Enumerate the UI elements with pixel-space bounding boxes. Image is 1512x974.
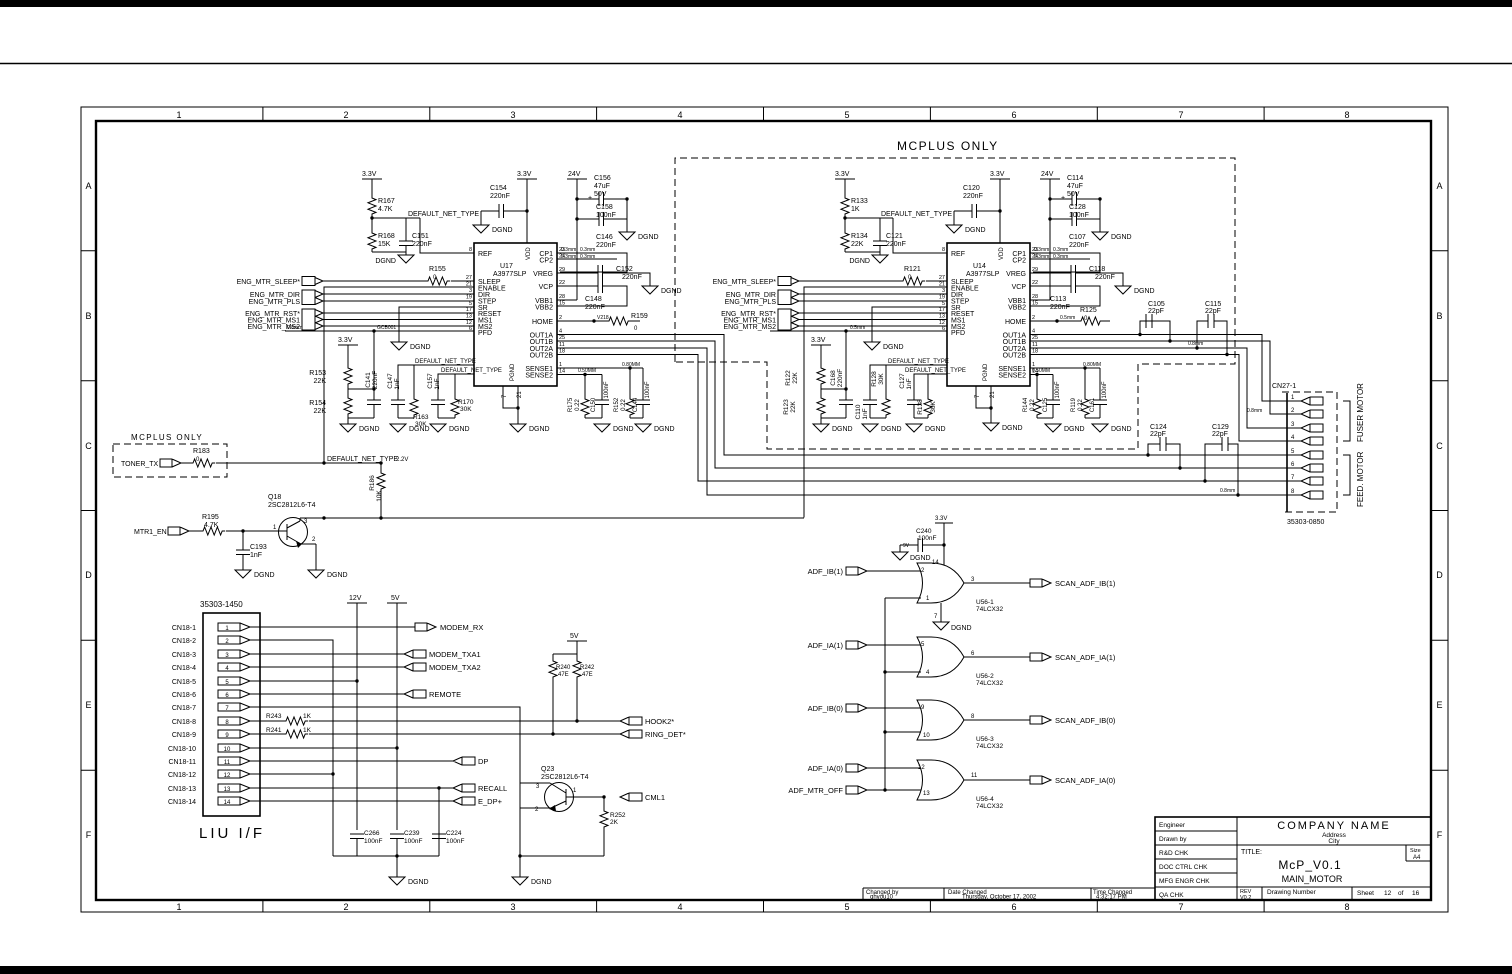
svg-text:1K: 1K bbox=[303, 727, 312, 734]
resistor R119 bbox=[1071, 366, 1089, 418]
svg-text:100nF: 100nF bbox=[446, 838, 464, 845]
input port MTR1_EN bbox=[134, 527, 189, 536]
output port MODEM_RX bbox=[415, 623, 483, 632]
svg-text:MCPLUS ONLY: MCPLUS ONLY bbox=[131, 433, 203, 442]
svg-text:30K: 30K bbox=[460, 406, 472, 413]
output port SCAN_ADF_IA(0) bbox=[1030, 776, 1116, 785]
input port DP bbox=[453, 757, 488, 766]
capacitor C124 bbox=[1146, 424, 1181, 470]
input port ENG_MTR_SLEEP* bbox=[237, 277, 323, 287]
resistor R183 bbox=[190, 448, 215, 467]
wire U56-2 output SCAN_ADF_IA(1) bbox=[964, 656, 1030, 658]
svg-text:MODEM_TXA1: MODEM_TXA1 bbox=[429, 650, 481, 659]
svg-text:22: 22 bbox=[1032, 280, 1038, 286]
input port ADF_IA(0) bbox=[808, 764, 867, 773]
input port HOOK2* bbox=[620, 717, 674, 726]
connector CN18 pin 7 bbox=[172, 703, 250, 712]
wire pin10 5V bbox=[250, 746, 399, 749]
capacitor C151 bbox=[399, 233, 432, 248]
row letters left bbox=[85, 181, 92, 840]
svg-text:McP_V0.1: McP_V0.1 bbox=[1278, 858, 1341, 872]
output port SCAN_ADF_IB(0) bbox=[1030, 716, 1116, 725]
wire ADF_IA(1) bbox=[867, 644, 921, 646]
node DEFAULT_NET_TYPE (U17 REF) bbox=[370, 211, 479, 220]
svg-text:24V: 24V bbox=[1041, 171, 1054, 178]
svg-text:47E: 47E bbox=[582, 672, 593, 678]
wire REF net bbox=[372, 217, 474, 253]
svg-text:0.50MM: 0.50MM bbox=[578, 368, 596, 374]
wire OUT2A U14 bbox=[1030, 348, 1287, 428]
svg-text:U14: U14 bbox=[973, 263, 986, 270]
svg-text:50V: 50V bbox=[594, 191, 607, 198]
capacitor C168 bbox=[830, 369, 853, 405]
svg-text:9V: 9V bbox=[903, 543, 910, 549]
svg-text:City: City bbox=[1328, 838, 1340, 845]
svg-text:3.3V: 3.3V bbox=[990, 171, 1005, 178]
svg-text:ADF_IA(1): ADF_IA(1) bbox=[808, 641, 844, 650]
svg-text:220nF: 220nF bbox=[1095, 274, 1115, 281]
svg-text:Thursday, October 17, 2002: Thursday, October 17, 2002 bbox=[962, 895, 1037, 901]
svg-text:4.7K: 4.7K bbox=[204, 522, 219, 529]
ground DGND (C144) bbox=[635, 424, 675, 433]
resistor R144 bbox=[1023, 373, 1041, 418]
node V219 bbox=[1055, 315, 1075, 323]
svg-text:1nF: 1nF bbox=[250, 552, 262, 559]
svg-text:11: 11 bbox=[971, 773, 978, 779]
U14 bottom ground pins bbox=[975, 363, 996, 423]
ground DGND (C157) bbox=[430, 424, 470, 433]
svg-text:C154: C154 bbox=[490, 185, 507, 192]
svg-text:19: 19 bbox=[939, 295, 945, 301]
wire VREG U14 bbox=[1030, 273, 1123, 286]
svg-text:11: 11 bbox=[1032, 342, 1038, 348]
svg-text:R241: R241 bbox=[266, 727, 282, 734]
input port CML1 bbox=[620, 793, 665, 802]
U14 left pin names bbox=[951, 251, 979, 337]
svg-text:U56-4: U56-4 bbox=[976, 796, 994, 803]
input port ENG_MTR_DIR (U14) bbox=[726, 290, 799, 305]
svg-text:14: 14 bbox=[224, 800, 231, 806]
svg-text:0.8mm: 0.8mm bbox=[1188, 341, 1203, 347]
svg-text:22K: 22K bbox=[792, 372, 799, 384]
wire pin5 12V bbox=[250, 679, 359, 682]
svg-text:5V: 5V bbox=[570, 633, 579, 640]
svg-text:CN18-8: CN18-8 bbox=[172, 719, 196, 726]
svg-text:C158: C158 bbox=[596, 204, 613, 211]
capacitor C156 electrolytic bbox=[577, 175, 627, 206]
svg-text:C107: C107 bbox=[1069, 234, 1086, 241]
input port ADF_IB(0) bbox=[808, 704, 867, 713]
connector CN18 pin 11 bbox=[169, 757, 251, 766]
svg-text:21: 21 bbox=[990, 391, 996, 398]
input port E_DP+ bbox=[453, 797, 503, 806]
svg-text:17: 17 bbox=[939, 307, 945, 313]
svg-text:22K: 22K bbox=[851, 241, 864, 248]
svg-text:ADF_IB(0): ADF_IB(0) bbox=[808, 704, 844, 713]
svg-text:C127: C127 bbox=[899, 373, 906, 389]
svg-text:22pF: 22pF bbox=[1205, 308, 1221, 315]
svg-text:1nF: 1nF bbox=[434, 378, 441, 389]
svg-text:C: C bbox=[85, 441, 92, 451]
svg-text:22: 22 bbox=[559, 280, 565, 286]
connector CN18 pin 6 bbox=[172, 690, 250, 699]
svg-text:ENG_MTR_SLEEP*: ENG_MTR_SLEEP* bbox=[713, 279, 777, 286]
svg-text:C147: C147 bbox=[387, 373, 394, 389]
svg-text:10: 10 bbox=[224, 747, 231, 753]
input port REMOTE bbox=[404, 690, 461, 699]
svg-text:3: 3 bbox=[510, 110, 515, 120]
bottom black bar bbox=[0, 966, 1512, 974]
wire RC2 ground bus U14 bbox=[914, 417, 928, 419]
svg-text:13: 13 bbox=[939, 314, 945, 320]
column numbers bottom bbox=[176, 902, 1349, 912]
svg-text:V218: V218 bbox=[597, 315, 609, 321]
svg-text:C148: C148 bbox=[585, 296, 602, 303]
svg-text:HOME: HOME bbox=[532, 319, 553, 326]
connector CN18 pin 8 bbox=[172, 717, 250, 726]
svg-text:C224: C224 bbox=[446, 830, 462, 837]
wire SENSE1 bbox=[557, 367, 643, 369]
svg-text:C141: C141 bbox=[365, 372, 372, 388]
or-gate U56-4 bbox=[917, 760, 1003, 810]
svg-text:GCB001: GCB001 bbox=[377, 325, 396, 331]
wire MS1 bbox=[323, 319, 474, 321]
transistor Q23 bbox=[520, 766, 604, 856]
svg-text:R123: R123 bbox=[783, 399, 790, 415]
svg-text:R186: R186 bbox=[369, 475, 376, 491]
svg-text:220nF: 220nF bbox=[1050, 304, 1070, 311]
svg-text:DGND: DGND bbox=[359, 426, 380, 433]
svg-text:1K: 1K bbox=[851, 206, 860, 213]
capacitor C239 bbox=[390, 830, 422, 845]
wire STEP U14 bbox=[799, 300, 947, 302]
svg-text:ENG_MTR_PLS: ENG_MTR_PLS bbox=[249, 299, 301, 306]
U17 bottom ground pins bbox=[502, 363, 523, 424]
svg-text:R144: R144 bbox=[1023, 397, 1029, 412]
svg-text:R122: R122 bbox=[785, 370, 792, 386]
wire CN27 pin stubs bbox=[1287, 401, 1301, 495]
ground DGND (C121) bbox=[849, 255, 888, 265]
wire RC1 net U14 bbox=[870, 365, 947, 400]
svg-text:13: 13 bbox=[224, 787, 231, 793]
wire pin4 MODEM_TXA2 bbox=[250, 666, 404, 668]
svg-text:VDD: VDD bbox=[526, 247, 532, 260]
svg-text:2SC2812L6-T4: 2SC2812L6-T4 bbox=[541, 774, 589, 781]
wire SENSE2 bbox=[557, 374, 602, 376]
wire VBB1 U14 bbox=[1030, 299, 1050, 301]
svg-text:C120: C120 bbox=[963, 185, 980, 192]
svg-text:DEFAULT_NET_TYPE: DEFAULT_NET_TYPE bbox=[888, 359, 949, 365]
svg-text:DGND: DGND bbox=[951, 625, 972, 632]
ground DGND (C118) bbox=[1115, 286, 1155, 295]
capacitor C161 bbox=[1090, 368, 1108, 418]
svg-text:ADF_MTR_OFF: ADF_MTR_OFF bbox=[788, 786, 843, 795]
input port ENG_MTR_RST* bbox=[245, 309, 323, 330]
wire ENABLE to bus bbox=[324, 287, 474, 463]
svg-text:CN18-10: CN18-10 bbox=[168, 746, 196, 753]
svg-text:Drawn by: Drawn by bbox=[1159, 836, 1187, 843]
svg-text:8: 8 bbox=[469, 247, 472, 253]
capacitor C224 bbox=[432, 830, 464, 845]
svg-text:DEFAULT_NET_TYPE: DEFAULT_NET_TYPE bbox=[441, 368, 502, 374]
svg-text:30K: 30K bbox=[878, 373, 885, 385]
wire U56-1 output SCAN_ADF_IB(1) bbox=[964, 582, 1030, 584]
U17 left pin names bbox=[478, 251, 506, 337]
3.3V supply (R167) bbox=[362, 171, 382, 195]
svg-text:7: 7 bbox=[1178, 902, 1183, 912]
svg-text:SENSE2: SENSE2 bbox=[998, 373, 1026, 380]
svg-text:Drawing Number: Drawing Number bbox=[1267, 889, 1317, 896]
svg-text:R154: R154 bbox=[309, 400, 326, 407]
svg-text:CN18-14: CN18-14 bbox=[168, 799, 196, 806]
svg-text:A: A bbox=[1436, 181, 1442, 191]
input port ENG_MTR_MS1 bbox=[247, 316, 323, 325]
capacitor C147 bbox=[387, 373, 405, 418]
svg-text:DGND: DGND bbox=[409, 426, 430, 433]
svg-text:RECALL: RECALL bbox=[478, 784, 507, 793]
label Date Changed bbox=[948, 890, 1037, 901]
wire RESET U14 bbox=[799, 312, 947, 314]
svg-text:C114: C114 bbox=[1067, 175, 1083, 182]
wire OUT1B U14 bbox=[1030, 341, 1287, 414]
svg-text:4: 4 bbox=[1032, 329, 1035, 335]
svg-text:2SC2812L6-T4: 2SC2812L6-T4 bbox=[268, 502, 316, 509]
svg-text:C125: C125 bbox=[1043, 397, 1049, 412]
svg-text:19: 19 bbox=[466, 295, 472, 301]
svg-text:E_DP+: E_DP+ bbox=[478, 797, 503, 806]
resistor R128 bbox=[871, 371, 890, 418]
wire gate1 input B bbox=[885, 597, 921, 599]
input port ENG_MTR_PLS (U14) bbox=[725, 298, 799, 307]
ground DGND (C128) bbox=[1092, 232, 1132, 241]
output port SCAN_ADF_IA(1) bbox=[1030, 653, 1116, 662]
svg-text:Sheet: Sheet bbox=[1357, 890, 1374, 897]
svg-text:100nF: 100nF bbox=[364, 838, 382, 845]
wire CP1 loop bbox=[557, 253, 627, 272]
capacitor C120 bbox=[954, 185, 1000, 225]
wire OUT1A bbox=[557, 335, 1287, 456]
frame column ticks bottom bbox=[263, 900, 1264, 912]
wire OUT1B bbox=[557, 341, 1287, 468]
svg-text:C121: C121 bbox=[886, 233, 903, 240]
svg-text:4:32:17 PM: 4:32:17 PM bbox=[1096, 895, 1127, 901]
wire U56-4 output SCAN_ADF_IA(0) bbox=[964, 779, 1030, 781]
svg-text:CN18-6: CN18-6 bbox=[172, 692, 196, 699]
svg-text:R170: R170 bbox=[458, 399, 474, 406]
frame outer border bbox=[81, 107, 1448, 912]
svg-text:R134: R134 bbox=[851, 233, 868, 240]
svg-text:14: 14 bbox=[559, 369, 565, 375]
svg-text:18: 18 bbox=[1032, 349, 1038, 355]
svg-text:C110: C110 bbox=[855, 404, 862, 419]
connector CN27-1 pin 4 bbox=[1291, 435, 1323, 445]
capacitor C128 bbox=[1050, 199, 1100, 232]
svg-text:DP: DP bbox=[478, 757, 488, 766]
wire U56-1 gnd pin 7 bbox=[934, 603, 941, 622]
input port RECALL bbox=[453, 784, 507, 793]
svg-text:PFD: PFD bbox=[951, 330, 965, 337]
svg-text:47uF: 47uF bbox=[1067, 183, 1083, 190]
wire OUT2A bbox=[557, 348, 1287, 495]
svg-text:15K: 15K bbox=[378, 241, 391, 248]
frame inner border bbox=[96, 121, 1431, 900]
svg-text:R133: R133 bbox=[851, 198, 868, 205]
svg-text:COMPANY NAME: COMPANY NAME bbox=[1277, 820, 1390, 832]
svg-text:C152: C152 bbox=[616, 266, 633, 273]
svg-text:SCAN_ADF_IA(1): SCAN_ADF_IA(1) bbox=[1055, 653, 1116, 662]
svg-text:C146: C146 bbox=[596, 234, 613, 241]
5V supply (hook pullups) bbox=[553, 633, 587, 658]
svg-text:DGND: DGND bbox=[254, 572, 275, 579]
svg-text:220nF: 220nF bbox=[412, 241, 432, 248]
svg-text:11: 11 bbox=[224, 760, 231, 766]
svg-text:0.8mm: 0.8mm bbox=[1247, 408, 1262, 414]
ground DGND (C193) bbox=[235, 570, 275, 579]
svg-text:DGND: DGND bbox=[529, 426, 550, 433]
wire pin12 ground branch bbox=[250, 772, 335, 775]
resistor R155 bbox=[425, 266, 450, 285]
svg-text:V0.2: V0.2 bbox=[1240, 895, 1251, 901]
3.3V supply (U56) bbox=[935, 516, 953, 565]
svg-text:R195: R195 bbox=[202, 514, 219, 521]
ground DGND (C125) bbox=[1045, 424, 1085, 433]
U14 right pin numbers bbox=[1032, 247, 1038, 375]
wire pin6 REMOTE bbox=[250, 693, 404, 695]
bracket fuser motor bbox=[1343, 401, 1350, 441]
svg-text:DGND: DGND bbox=[925, 426, 946, 433]
input port ENG_MTR_MS1 (U14) bbox=[723, 316, 799, 325]
wire PFD divider bbox=[348, 331, 374, 424]
wire OUT2B bbox=[557, 355, 1287, 482]
wire RC1 ground bus U14 bbox=[870, 417, 886, 419]
node C240 junction bbox=[942, 543, 945, 546]
svg-text:0.22: 0.22 bbox=[621, 399, 627, 411]
svg-text:100nF: 100nF bbox=[1055, 381, 1061, 398]
svg-text:100nF: 100nF bbox=[404, 838, 422, 845]
svg-text:MAIN_MOTOR: MAIN_MOTOR bbox=[1282, 874, 1343, 884]
wire ADF_MTR_OFF bbox=[867, 788, 921, 791]
svg-text:7: 7 bbox=[1178, 110, 1183, 120]
wire RESET bbox=[323, 312, 474, 314]
svg-text:0.8mm: 0.8mm bbox=[287, 325, 302, 331]
svg-text:R152: R152 bbox=[614, 397, 620, 412]
wire MS1 U14 bbox=[799, 319, 947, 321]
capacitor C152 bbox=[598, 266, 642, 281]
capacitor C148 bbox=[585, 279, 605, 311]
svg-text:DGND: DGND bbox=[375, 258, 396, 265]
wire pin8 HOOK2 bbox=[250, 720, 620, 722]
connector CN27-1 pin 7 bbox=[1291, 475, 1323, 485]
wire Q18 emitter bbox=[315, 544, 317, 570]
transistor Q18 bbox=[268, 494, 316, 548]
svg-text:18: 18 bbox=[559, 349, 565, 355]
svg-text:VBB2: VBB2 bbox=[535, 305, 553, 312]
wire sense2 ground bus U14 bbox=[1037, 417, 1053, 419]
node 24V rail junctions U14 bbox=[1048, 197, 1101, 220]
svg-text:C115: C115 bbox=[1205, 301, 1221, 308]
op-amp U17 A3977SLP body bbox=[474, 243, 557, 386]
svg-text:100nF: 100nF bbox=[645, 381, 651, 398]
svg-text:VDD: VDD bbox=[999, 247, 1005, 260]
svg-text:C151: C151 bbox=[412, 233, 429, 240]
24V supply (U14) bbox=[1040, 171, 1060, 300]
svg-text:DEFAULT_NET_TYPE: DEFAULT_NET_TYPE bbox=[327, 456, 398, 463]
U17 left pin numbers bbox=[466, 247, 472, 332]
svg-text:C161: C161 bbox=[1090, 397, 1096, 412]
svg-text:220nF: 220nF bbox=[585, 304, 605, 311]
wire pin13 RECALL bbox=[250, 787, 453, 789]
svg-text:22pF: 22pF bbox=[1148, 308, 1164, 315]
svg-text:0.3mm: 0.3mm bbox=[580, 254, 595, 260]
input port ENG_MTR_RST* (U14) bbox=[721, 309, 799, 330]
capacitor C107 bbox=[1069, 234, 1089, 279]
svg-text:28: 28 bbox=[1032, 294, 1038, 300]
svg-text:28: 28 bbox=[559, 294, 565, 300]
svg-text:PGND: PGND bbox=[983, 363, 989, 381]
connector CN18 body bbox=[203, 613, 260, 816]
svg-text:22pF: 22pF bbox=[1212, 431, 1228, 438]
node divider junction U14 bbox=[844, 387, 847, 390]
svg-text:QA CHK: QA CHK bbox=[1159, 892, 1184, 899]
svg-text:3: 3 bbox=[942, 288, 945, 294]
svg-text:DGND: DGND bbox=[1111, 426, 1132, 433]
title block label texts bbox=[1159, 822, 1210, 899]
wire DIR U14 bbox=[799, 293, 947, 295]
svg-text:17: 17 bbox=[466, 307, 472, 313]
svg-text:DEFAULT_NET_TYPE: DEFAULT_NET_TYPE bbox=[881, 211, 952, 218]
wire pin3 MODEM_TXA1 bbox=[250, 653, 404, 655]
connector CN27-1 dashed outline bbox=[1282, 392, 1337, 512]
ground DGND (R123) bbox=[813, 424, 853, 433]
svg-text:MFG ENGR CHK: MFG ENGR CHK bbox=[1159, 878, 1210, 885]
svg-text:16: 16 bbox=[1412, 890, 1420, 897]
svg-text:100nF: 100nF bbox=[918, 535, 936, 542]
svg-text:DGND: DGND bbox=[410, 344, 431, 351]
wire PFD U14 bbox=[770, 325, 947, 333]
svg-text:5V: 5V bbox=[391, 595, 400, 602]
svg-text:R128: R128 bbox=[871, 371, 878, 387]
svg-text:F: F bbox=[1437, 830, 1443, 840]
svg-text:0.3mm: 0.3mm bbox=[1034, 254, 1049, 260]
capacitor C266 bbox=[350, 830, 382, 845]
svg-text:DGND: DGND bbox=[1111, 234, 1132, 241]
3.3V supply (R122) bbox=[811, 337, 831, 365]
resistor R152 bbox=[614, 366, 634, 418]
input port ENG_MTR_DIR bbox=[250, 290, 323, 305]
svg-text:DGND: DGND bbox=[832, 426, 853, 433]
svg-text:C239: C239 bbox=[404, 830, 420, 837]
svg-text:0.3mm: 0.3mm bbox=[1034, 247, 1049, 253]
capacitor C146 bbox=[596, 234, 616, 279]
resistor R167 bbox=[368, 195, 395, 217]
svg-text:SCAN_ADF_IA(0): SCAN_ADF_IA(0) bbox=[1055, 776, 1116, 785]
input port ADF_IA(1) bbox=[808, 641, 867, 650]
svg-text:ENG_MTR_PLS: ENG_MTR_PLS bbox=[725, 299, 777, 306]
capacitor C118 bbox=[1071, 266, 1115, 281]
svg-text:U56-2: U56-2 bbox=[976, 673, 994, 680]
wire sense1 ground bus U14 bbox=[1085, 417, 1100, 419]
svg-text:3.3V: 3.3V bbox=[835, 171, 850, 178]
wire MS2 bbox=[323, 325, 474, 327]
resistor R163 bbox=[410, 396, 429, 428]
resistor R123 bbox=[783, 395, 825, 417]
or-gate U56-1 bbox=[917, 563, 1003, 613]
svg-text:12: 12 bbox=[224, 773, 231, 779]
ground DGND (C154) bbox=[473, 225, 513, 234]
svg-text:3: 3 bbox=[510, 902, 515, 912]
or-gate U56-2 bbox=[917, 637, 1003, 687]
svg-text:ADF_IB(1): ADF_IB(1) bbox=[808, 567, 844, 576]
